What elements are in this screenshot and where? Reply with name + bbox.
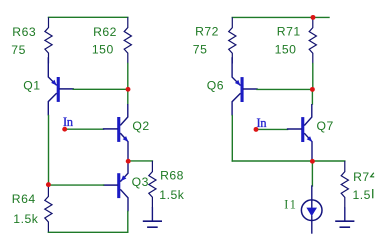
resistor R72 [229,17,236,63]
wire In to Q7 base [256,128,288,130]
resistor R63 [45,17,52,63]
node Q2 emitter junction [126,159,131,164]
node Q1 base / R62 [126,87,131,92]
node Q7 emitter junction [310,159,315,164]
svg-text:I1: I1 [284,198,297,212]
clipped k stem of R74 value [372,189,373,198]
node In left [62,127,67,132]
wire top rail left circuit [49,16,128,18]
transistor Q7 [301,117,304,142]
wire node down to Q2 collector [127,89,129,104]
node R64 top [46,182,51,187]
wire junction to R74 [312,160,344,162]
svg-text:1.5: 1.5 [353,188,371,202]
wire bottom rail left circuit [48,231,127,233]
wire R71 bottom to node [312,64,314,90]
wire Q1 collector down [48,116,50,185]
clipped 4 fragment of R74 label [371,173,375,177]
resistor R68 [149,161,156,208]
node In right [254,127,259,132]
resistor R64 [45,186,52,232]
wire Q3 base to R64 node [48,184,103,186]
wire Q6 base to node [257,88,312,90]
svg-text:Q3: Q3 [132,175,149,189]
resistor R74 [341,161,348,208]
svg-text:Q6: Q6 [207,78,224,92]
svg-text:150: 150 [275,43,297,57]
svg-text:R7: R7 [353,170,370,184]
wire junction to R68 [128,160,152,162]
svg-text:1.5k: 1.5k [13,212,38,226]
wire Q6 collector to junction [232,160,312,162]
resistor R71 [309,17,316,63]
svg-text:150: 150 [92,43,114,57]
wire In to Q2 base [65,128,104,130]
svg-text:75: 75 [11,43,26,57]
wire Q6 collector down [231,116,233,161]
svg-text:Q7: Q7 [317,119,334,133]
transistor Q3 [117,173,120,198]
wire top rail right circuit [232,16,329,18]
transistor Q6 [241,77,244,102]
svg-text:Q2: Q2 [132,119,149,133]
svg-text:1.5k: 1.5k [159,188,184,202]
svg-text:R64: R64 [12,192,36,206]
transistor Q2 [117,117,120,142]
svg-text:R71: R71 [277,25,301,39]
wire Q3 collector down [127,212,129,233]
svg-text:R72: R72 [195,25,219,39]
svg-text:In: In [257,116,267,130]
svg-text:R63: R63 [12,25,36,39]
svg-text:Q1: Q1 [23,78,40,92]
ground below R68 [151,208,153,221]
wire Q1 base to node [73,88,128,90]
svg-text:R68: R68 [160,169,184,183]
wire junction down to I1 [311,161,313,186]
svg-text:R62: R62 [93,25,117,39]
node top rail [311,15,316,20]
svg-text:75: 75 [193,43,208,57]
node Q6 base / R71 [310,87,315,92]
resistor R62 [124,17,131,63]
current source I1 [311,186,313,207]
ground below R74 [344,208,346,221]
transistor Q1 [57,77,60,102]
wire node down to Q7 collector [311,89,313,104]
wire R62 bottom to node [127,63,129,89]
